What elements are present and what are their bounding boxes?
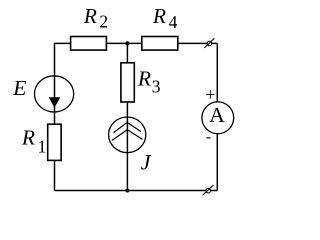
svg-text:+: + <box>205 85 215 105</box>
svg-text:4: 4 <box>169 12 178 32</box>
EMF source E <box>35 76 74 112</box>
svg-text:3: 3 <box>152 76 161 96</box>
terminal top right <box>204 38 214 48</box>
node junction top <box>125 41 129 45</box>
svg-text:R: R <box>137 67 151 91</box>
svg-text:J: J <box>141 150 152 175</box>
wire top horizontal <box>55 42 218 44</box>
resistor R1 <box>48 124 61 160</box>
svg-text:E: E <box>12 76 26 100</box>
terminal bottom right <box>203 185 214 195</box>
wire middle branch <box>126 43 128 190</box>
svg-text:R: R <box>152 4 166 28</box>
ammeter A <box>202 102 234 134</box>
wire bottom horizontal <box>55 190 218 192</box>
arrow of E source <box>49 97 61 107</box>
svg-text:R: R <box>21 126 35 150</box>
svg-text:1: 1 <box>38 136 47 156</box>
svg-text:A: A <box>209 103 225 127</box>
current source J <box>109 117 146 153</box>
resistor R4 <box>142 37 178 51</box>
wire left rail <box>54 43 56 191</box>
resistor R2 <box>71 37 107 51</box>
node junction bottom <box>125 189 129 193</box>
svg-text:2: 2 <box>99 12 108 32</box>
svg-text:-: - <box>206 129 211 146</box>
wire right rail <box>216 43 218 190</box>
resistor R3 <box>121 63 134 102</box>
current source chevrons <box>112 122 143 140</box>
svg-text:R: R <box>83 4 97 28</box>
